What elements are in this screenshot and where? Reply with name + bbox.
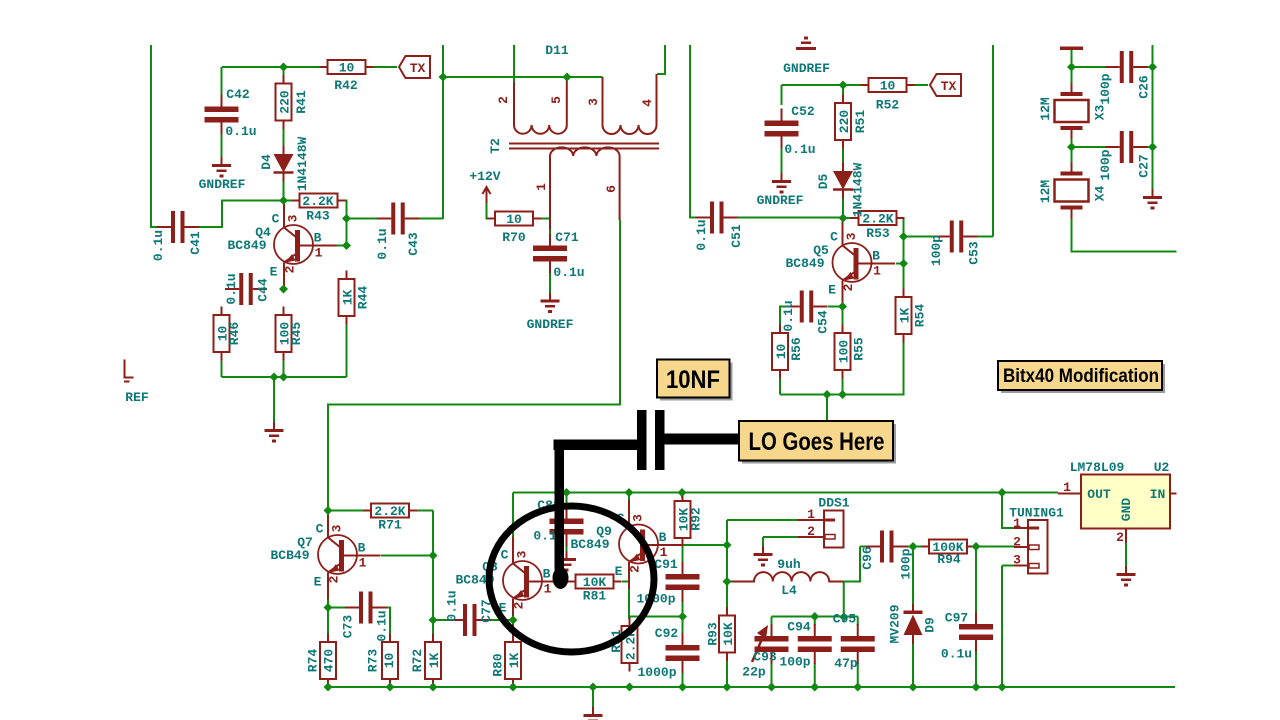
svg-text:R51: R51 <box>853 110 868 134</box>
svg-text:R93: R93 <box>706 622 721 646</box>
svg-text:10: 10 <box>339 61 355 76</box>
svg-text:C26: C26 <box>1137 75 1152 99</box>
svg-text:R45: R45 <box>289 322 304 346</box>
svg-text:1: 1 <box>1063 480 1071 495</box>
svg-text:12M: 12M <box>1038 180 1053 204</box>
svg-text:C54: C54 <box>816 310 831 334</box>
svg-text:C93: C93 <box>753 650 777 665</box>
svg-text:D9: D9 <box>923 617 938 633</box>
svg-text:R70: R70 <box>502 230 526 245</box>
svg-text:1: 1 <box>807 507 815 522</box>
svg-text:0.1u: 0.1u <box>224 273 239 304</box>
svg-text:100p: 100p <box>1098 73 1113 104</box>
svg-text:220: 220 <box>837 110 852 134</box>
svg-text:Bitx40 Modification: Bitx40 Modification <box>1003 366 1159 387</box>
svg-text:R72: R72 <box>410 649 425 673</box>
svg-text:R52: R52 <box>876 98 900 113</box>
svg-text:C51: C51 <box>729 224 744 248</box>
svg-text:C43: C43 <box>406 232 421 256</box>
svg-text:R46: R46 <box>227 322 242 346</box>
svg-text:1000p: 1000p <box>637 665 676 680</box>
svg-text:D4: D4 <box>259 154 274 170</box>
svg-text:C73: C73 <box>341 615 356 639</box>
svg-text:10: 10 <box>880 79 896 94</box>
svg-text:X4: X4 <box>1093 186 1108 202</box>
svg-text:T2: T2 <box>488 138 503 154</box>
svg-text:U2: U2 <box>1154 460 1170 475</box>
svg-text:0.1u: 0.1u <box>694 219 709 250</box>
svg-text:3: 3 <box>1013 553 1021 568</box>
svg-text:GND: GND <box>1119 498 1134 522</box>
svg-text:R41: R41 <box>294 90 309 114</box>
svg-text:BCB49: BCB49 <box>270 548 309 563</box>
svg-text:100p: 100p <box>929 235 944 266</box>
svg-text:MV209: MV209 <box>888 604 903 643</box>
svg-text:12M: 12M <box>1038 97 1053 121</box>
svg-text:6: 6 <box>604 185 619 193</box>
svg-text:2.2K: 2.2K <box>862 212 893 227</box>
svg-text:D11: D11 <box>545 43 569 58</box>
svg-text:1N4148W: 1N4148W <box>295 136 310 191</box>
svg-text:0.1u: 0.1u <box>445 590 460 621</box>
svg-text:2: 2 <box>807 524 815 539</box>
svg-text:0.1u: 0.1u <box>553 265 584 280</box>
svg-text:GNDREF: GNDREF <box>527 317 574 332</box>
svg-text:D5: D5 <box>816 174 831 190</box>
svg-text:4: 4 <box>640 99 655 107</box>
svg-text:C41: C41 <box>188 231 203 255</box>
svg-text:2: 2 <box>1013 535 1021 550</box>
svg-text:0.1u: 0.1u <box>784 142 815 157</box>
svg-text:X3: X3 <box>1093 105 1108 121</box>
svg-text:1K: 1K <box>507 653 522 669</box>
svg-text:R42: R42 <box>334 78 358 93</box>
svg-text:9uh: 9uh <box>777 557 801 572</box>
svg-text:2.2K: 2.2K <box>302 194 333 209</box>
svg-text:GNDREF: GNDREF <box>783 61 830 76</box>
svg-text:L4: L4 <box>781 583 797 598</box>
svg-text:10: 10 <box>774 344 789 360</box>
svg-text:C53: C53 <box>967 241 982 265</box>
svg-text:0.1u: 0.1u <box>781 300 796 331</box>
svg-text:OUT: OUT <box>1087 487 1111 502</box>
svg-text:BC849: BC849 <box>785 256 824 271</box>
svg-text:0.1u: 0.1u <box>375 610 390 641</box>
svg-text:2: 2 <box>1116 530 1124 545</box>
svg-text:0.1u: 0.1u <box>151 230 166 261</box>
svg-text:GNDREF: GNDREF <box>199 177 246 192</box>
svg-text:C94: C94 <box>787 620 811 635</box>
svg-text:10: 10 <box>506 212 522 227</box>
svg-text:C52: C52 <box>791 104 815 119</box>
svg-text:47p: 47p <box>834 656 858 671</box>
svg-text:LM78L09: LM78L09 <box>1070 460 1125 475</box>
svg-text:R80: R80 <box>491 653 506 677</box>
svg-text:DDS1: DDS1 <box>818 496 849 511</box>
svg-text:0.1u: 0.1u <box>375 228 390 259</box>
svg-text:R71: R71 <box>378 518 402 533</box>
svg-text:GNDREF: GNDREF <box>757 193 804 208</box>
svg-text:100p: 100p <box>1098 149 1113 180</box>
svg-text:1000p: 1000p <box>636 592 675 607</box>
svg-text:R94: R94 <box>937 552 961 567</box>
svg-text:1N4148W: 1N4148W <box>851 162 866 217</box>
svg-text:1: 1 <box>1013 516 1021 531</box>
svg-text:1: 1 <box>534 183 549 191</box>
svg-text:C92: C92 <box>655 626 679 641</box>
svg-text:BC849: BC849 <box>227 238 266 253</box>
svg-text:470: 470 <box>322 649 337 673</box>
svg-text:C27: C27 <box>1137 154 1152 177</box>
svg-text:3: 3 <box>586 98 601 106</box>
svg-text:C44: C44 <box>256 278 271 302</box>
svg-text:C96: C96 <box>860 546 875 570</box>
svg-text:10K: 10K <box>721 622 736 646</box>
svg-text:100p: 100p <box>899 548 914 579</box>
svg-text:10NF: 10NF <box>666 366 720 394</box>
svg-text:BC849: BC849 <box>570 537 609 552</box>
svg-text:R74: R74 <box>306 649 321 673</box>
svg-text:0.1u: 0.1u <box>225 124 256 139</box>
svg-text:R92: R92 <box>689 507 704 531</box>
svg-text:22p: 22p <box>742 665 766 680</box>
svg-text:C91: C91 <box>654 557 678 572</box>
svg-text:R81: R81 <box>583 589 607 604</box>
svg-text:5: 5 <box>549 96 564 104</box>
svg-text:100: 100 <box>837 340 852 364</box>
svg-text:IN: IN <box>1150 487 1166 502</box>
svg-text:10: 10 <box>382 653 397 669</box>
svg-text:C97: C97 <box>945 611 968 626</box>
svg-text:R73: R73 <box>366 649 381 673</box>
svg-text:REF: REF <box>125 390 149 405</box>
svg-text:100p: 100p <box>779 655 810 670</box>
svg-text:R55: R55 <box>852 337 867 361</box>
svg-text:C95: C95 <box>833 612 857 627</box>
svg-text:R44: R44 <box>356 286 371 310</box>
svg-text:+12V: +12V <box>469 169 500 184</box>
svg-text:1K: 1K <box>898 308 913 324</box>
svg-text:220: 220 <box>278 90 293 114</box>
svg-text:R54: R54 <box>913 304 928 328</box>
svg-text:0.1u: 0.1u <box>941 647 972 662</box>
svg-text:1K: 1K <box>341 290 356 306</box>
svg-text:LO Goes Here: LO Goes Here <box>749 428 885 456</box>
svg-text:R56: R56 <box>789 337 804 361</box>
svg-text:R43: R43 <box>306 209 330 224</box>
svg-text:C71: C71 <box>555 230 579 245</box>
svg-text:1K: 1K <box>427 653 442 669</box>
svg-text:C42: C42 <box>226 87 250 102</box>
svg-text:R53: R53 <box>866 226 890 241</box>
svg-text:2: 2 <box>496 96 511 104</box>
